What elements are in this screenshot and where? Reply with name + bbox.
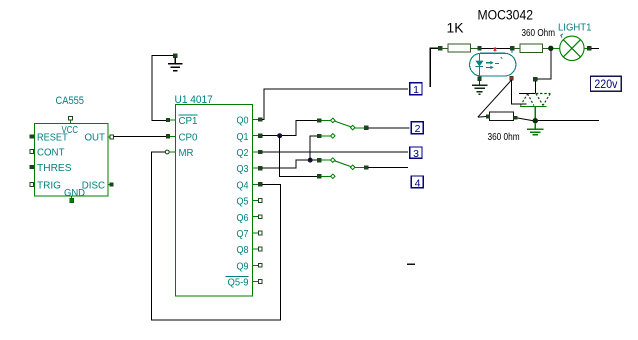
svg-text:MOC3042: MOC3042 [478, 8, 534, 23]
svg-text:1K: 1K [447, 20, 464, 35]
pin MR (open circle) [165, 150, 175, 154]
wire triac bottom to right rail [538, 120, 599, 122]
pin VCC (top, open) [69, 116, 73, 123]
pin Q5-9 (open) [253, 280, 263, 284]
red error mark on top wire [494, 47, 497, 52]
opto detector dash [495, 57, 502, 64]
svg-text:Q6: Q6 [237, 212, 249, 224]
opto LED [475, 53, 483, 76]
opto pin 4 bottom-right [510, 76, 514, 80]
svg-text:3: 3 [413, 148, 419, 160]
svg-text:CP1: CP1 [179, 115, 198, 127]
switch S4 (open) [317, 174, 335, 179]
wire down-stub to resistor R1 [430, 48, 438, 87]
opto pin 6 top-right [510, 46, 514, 53]
svg-text:CONT: CONT [37, 147, 65, 159]
IC U2 CA555 body [35, 124, 109, 197]
connector box 4 [411, 176, 423, 189]
svg-text:Q5-9: Q5-9 [228, 277, 249, 289]
ground G3 (triac, green) [527, 123, 544, 135]
label box 220v [591, 76, 622, 91]
pin Q8 (open) [253, 247, 263, 251]
svg-text:THRES: THRES [37, 162, 72, 174]
svg-text:MR: MR [179, 147, 194, 159]
optocoupler U3 MOC3042 capsule [470, 53, 516, 76]
wire MR to Q4 (reset loop) [151, 152, 280, 320]
triac top terminal pin [533, 77, 537, 93]
wire opto anode to pin 6 [481, 47, 510, 49]
pin CONT (open) [30, 150, 35, 154]
pin Q2 (solid) [253, 150, 263, 154]
svg-text:Q3: Q3 [237, 163, 249, 175]
pin Q9 (open) [253, 263, 263, 267]
triac U4 [519, 94, 551, 120]
lamp X1 LIGHT1 [554, 34, 592, 61]
pin Q0 (solid) [253, 118, 263, 122]
switch S2 (open) [317, 134, 335, 139]
resistor R3 360 Ohm (gate) [478, 112, 533, 121]
wire Q0 to connector 1 [262, 89, 408, 120]
svg-text:Q5: Q5 [237, 196, 249, 208]
svg-text:1: 1 [413, 84, 419, 96]
svg-text:DISC: DISC [82, 180, 106, 192]
pin Q5 (open) [253, 199, 263, 203]
svg-text:TRIG: TRIG [37, 180, 61, 192]
wire opto pin4 to triac gate [511, 80, 526, 104]
junction node D (lamp left) [548, 46, 553, 51]
svg-text:RESET: RESET [37, 132, 68, 144]
wire CP1 to ground G1 [152, 56, 174, 121]
pin DISC (solid) [108, 183, 113, 187]
pin TRIG (open) [30, 183, 35, 187]
svg-text:2: 2 [415, 123, 421, 135]
junction node B (Q3 branch) [308, 158, 313, 163]
wire Q3 to switch S3 [262, 160, 317, 168]
wire node A to switch S4 [280, 136, 318, 177]
svg-text:220v: 220v [594, 79, 617, 91]
pin Q7 (open) [253, 231, 263, 235]
pin THRES (solid) [30, 165, 35, 169]
stray dash mark [407, 263, 415, 265]
pin Q6 (open) [253, 215, 263, 219]
pin RESET (solid) [30, 135, 35, 139]
wire OUT to CP0 [114, 135, 166, 137]
pin Q3 (solid) [253, 166, 263, 170]
wire opto pin4 slant to R3 [478, 80, 512, 117]
junction node C (triac bottom) [533, 118, 538, 123]
svg-text:Q2: Q2 [237, 147, 249, 159]
svg-text:U1 4017: U1 4017 [175, 94, 213, 106]
connector box 1 [410, 83, 422, 96]
wire lamp to right rail [591, 47, 599, 49]
pin label CP1 with overline [179, 115, 198, 127]
svg-text:Q7: Q7 [237, 228, 249, 240]
ground G2 (opto LED cathode) [472, 81, 487, 95]
svg-text:OUT: OUT [85, 132, 106, 144]
svg-text:Q0: Q0 [237, 115, 249, 127]
pin label Q5-9 with overline [226, 276, 249, 288]
opto pin cathode bottom [478, 77, 482, 81]
wire S3 toward connector 4 [368, 167, 408, 169]
pin CP0 (solid) [166, 134, 175, 138]
pin Q4 (solid) [253, 182, 263, 186]
svg-text:4: 4 [415, 177, 421, 189]
wire triac top to lamp node [537, 48, 551, 79]
switch S3 (closed) [317, 158, 368, 170]
IC U1 4017 body [176, 105, 253, 297]
svg-text:CP0: CP0 [179, 131, 198, 143]
svg-text:360 Ohm: 360 Ohm [522, 27, 556, 39]
wire node B to switch S2 [310, 136, 317, 160]
switch S1 (closed) [317, 118, 368, 130]
svg-text:GND: GND [64, 187, 85, 199]
connector box 2 [411, 122, 423, 135]
opto emission arrows [486, 61, 494, 69]
svg-text:Q8: Q8 [237, 244, 249, 256]
svg-text:Q1: Q1 [237, 131, 249, 143]
pin Q1 (solid) [253, 134, 263, 138]
svg-text:360 0hm: 360 0hm [488, 131, 520, 143]
svg-text:Q9: Q9 [237, 260, 249, 272]
svg-text:CA555: CA555 [56, 95, 85, 107]
svg-text:Q4: Q4 [237, 179, 249, 191]
pin OUT (open) [108, 135, 114, 139]
wire Q1 to switch S1 [262, 120, 317, 135]
svg-text:LIGHT1: LIGHT1 [558, 22, 592, 34]
opto pin anode top [478, 46, 482, 50]
wire Q2 to connector 3 [262, 151, 408, 153]
red error mark on opto pin 4 [510, 77, 513, 80]
junction node A (Q1 branch) [277, 133, 282, 138]
pin CP1 (solid) [166, 118, 175, 122]
wire S1 to connector 2 [368, 127, 409, 129]
pin GND (bottom, solid green) [70, 196, 74, 203]
ground G1 (top, near 4017 CP1 net) [168, 54, 183, 71]
resistor R1 1K [438, 44, 477, 52]
resistor R2 360 Ohm [514, 44, 548, 52]
connector box 3 [410, 147, 422, 160]
